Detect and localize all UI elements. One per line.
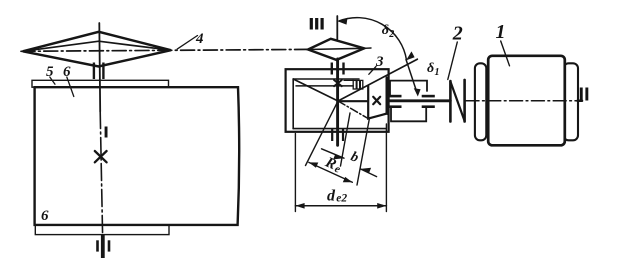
bearing housing bottom box — [391, 107, 426, 121]
dimension line b right segment — [360, 169, 376, 177]
bearing bar left at shaft I bottom — [96, 240, 99, 251]
svg-text:5: 5 — [46, 64, 54, 80]
coupling 2 left bar — [449, 81, 452, 122]
pulley big rhombus on shaft I — [23, 32, 171, 67]
wire motor axis dash-dot — [466, 100, 578, 102]
top plate 5 of machine box — [32, 80, 169, 87]
dimension line b left segment — [322, 149, 345, 158]
gearbox right wall bold — [386, 80, 388, 114]
arrowhead de2 right — [377, 203, 386, 209]
coupling 2 diagonal — [450, 82, 464, 122]
bearing bars shaft III bottom — [331, 128, 333, 141]
gear wheel 3 bottom edge — [293, 128, 386, 130]
angle arc delta2 — [339, 18, 407, 60]
svg-text:d: d — [327, 188, 336, 205]
hub bar right on shaft I — [102, 63, 104, 80]
gearbox housing outer box — [286, 69, 389, 132]
svg-text:3: 3 — [375, 54, 384, 70]
label 4 leader — [177, 36, 197, 50]
coupling 2 right bar — [463, 80, 466, 122]
pitch cone line left L1 — [293, 79, 338, 101]
svg-text:6: 6 — [63, 64, 71, 80]
label III (roman numeral shaft III) — [310, 18, 324, 30]
machine box 6 — [35, 87, 240, 225]
hatched sleeve on shaft III — [353, 80, 363, 89]
node bowtie mark shaft III on rim — [334, 80, 342, 86]
svg-text:2: 2 — [452, 23, 463, 45]
bevel pinion quad with X — [368, 78, 386, 119]
hub bar left on shaft I — [93, 63, 95, 80]
dimension ext line C inner face — [341, 113, 351, 166]
pulley small inner chord — [308, 48, 364, 49]
gear wheel 3 rim inner line — [296, 85, 353, 87]
arrowhead delta2 top — [338, 18, 348, 25]
arrowhead Re right — [343, 177, 353, 182]
label II (roman numeral shaft II) — [580, 88, 583, 101]
shaft III main bold segment — [336, 59, 339, 145]
arrowhead Re left — [309, 162, 319, 167]
dimension ext line de2 left — [294, 134, 296, 212]
shaft III upper segment — [336, 16, 338, 39]
dimension line Re — [309, 162, 353, 182]
svg-text:1: 1 — [435, 67, 440, 78]
svg-text:b: b — [349, 149, 361, 165]
label I (roman numeral on shaft I) — [105, 127, 108, 138]
bearing housing top box — [390, 81, 427, 95]
dimension ext line A from apex — [306, 101, 339, 166]
pulley small rhombus on shaft III — [308, 39, 364, 60]
arrowhead delta1 — [414, 88, 421, 96]
label 2 leader — [448, 42, 458, 80]
node X mark on shaft I — [95, 151, 107, 162]
pitch cone line right L2 extended — [338, 59, 417, 101]
label 5 leader — [50, 77, 55, 84]
shaft II inner bold segment from apex — [338, 100, 367, 102]
bottom plate of machine box — [35, 225, 169, 235]
motor 1 body — [488, 56, 565, 146]
arrowhead de2 left — [295, 203, 304, 209]
shaft I lower dash-dot segment — [100, 112, 102, 236]
dimension ext line B outer face — [357, 118, 370, 185]
shaft I bottom end bold stub — [101, 235, 105, 258]
motor 1 right cap — [564, 63, 578, 140]
bearing lower bars — [388, 105, 402, 108]
label 1 leader — [501, 41, 510, 66]
wire belt line 4 (dash-dot axis between pulleys) — [21, 49, 308, 51]
arrowhead delta2 bottom — [406, 51, 415, 60]
bearing upper bars — [388, 95, 402, 98]
shaft II bold segment — [387, 99, 450, 102]
dimension line de2 — [295, 205, 386, 207]
svg-text:e2: e2 — [336, 193, 347, 205]
gear wheel 3 left edge — [292, 79, 294, 129]
label 3 leader — [369, 67, 376, 75]
svg-text:δ: δ — [427, 61, 434, 76]
bearing bars shaft III top — [331, 63, 333, 75]
bearing bar right at shaft I bottom — [108, 240, 111, 251]
svg-text:4: 4 — [195, 31, 204, 47]
svg-text:1: 1 — [496, 21, 506, 43]
shaft I upper solid segment — [98, 23, 101, 112]
svg-text:2: 2 — [388, 29, 394, 40]
node X mark in pinion — [373, 97, 380, 104]
svg-text:6: 6 — [41, 208, 49, 224]
motor 1 left cap — [475, 63, 486, 140]
label 6 top leader — [67, 77, 74, 97]
shaft II stub right of motor — [578, 99, 583, 102]
pulley big inner chord — [23, 41, 171, 51]
wire axis dash right of small pulley — [364, 47, 371, 49]
angle leader delta1 — [406, 60, 417, 94]
svg-text:δ: δ — [382, 23, 389, 38]
dimension ext line de2 right — [385, 124, 387, 212]
arrowhead b right — [360, 168, 371, 173]
gear wheel 3 top edge — [293, 78, 359, 80]
arrowhead b left — [333, 154, 344, 159]
pitch cone lower dash-dot L3 — [338, 101, 368, 119]
